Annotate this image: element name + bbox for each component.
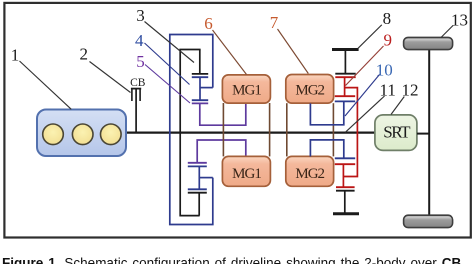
wheel bottom [404,215,453,227]
svg-text:Figure 1. Schematic configurat: Figure 1. Schematic configuration of dri… [2,256,461,264]
leader line 11 [345,96,384,132]
housing ground mount bottom [333,212,359,215]
svg-text:MG2: MG2 [295,82,324,98]
engine cylinder 3 [101,124,122,145]
gear mesh PG1 upper pair B [192,100,208,103]
wire: axle shaft [428,49,430,215]
leader line 4 [145,43,190,85]
leader line 1 [20,61,72,109]
gear mesh PG1 upper pair A [192,74,208,77]
svg-text:3: 3 [136,6,145,25]
clutch-brake CB (component 2) [131,89,141,132]
wire: sun shaft to MG1 lower, purple [197,140,246,163]
leader line 8 [358,25,382,49]
svg-text:SRT: SRT [383,123,411,142]
svg-text:MG2: MG2 [295,166,324,182]
motor MG2 upper half (component 7) [286,75,334,104]
motor MG1 lower half [222,156,270,186]
gear mesh PG1 lower pair B [188,189,207,192]
leader line 12 [391,97,404,115]
leader line 5 [145,65,190,104]
leader line 13 [441,26,453,38]
motor MG1 upper half (component 6) [222,75,270,103]
wire: MG2 rotor link lower, blue [310,140,343,158]
gear mesh PG2 lower pair B [336,187,355,191]
engine cylinder 2 [72,124,93,145]
svg-text:2: 2 [80,45,89,64]
svg-text:MG1: MG1 [232,166,261,182]
wire: MG1 stator housing links [223,103,269,156]
leader line 2 [90,62,131,93]
SRT gearbox (component 12) [375,115,417,150]
svg-text:5: 5 [136,52,145,71]
svg-text:4: 4 [135,31,144,50]
leader line 7 [278,29,309,74]
ring gear frame R1, blue outline (component 4) [170,35,213,225]
wire: stem to bottom mount [344,191,346,214]
wire: MG2 rotor link upper, blue (component 10) [310,101,343,124]
wire: sun shaft to MG1 upper, purple (component 5) [200,103,246,125]
leader line 3 [145,22,195,63]
gear mesh PG2 upper pair A [335,74,355,78]
gear mesh PG2 lower pair A [335,158,355,164]
carrier frame, black outline (component 3) [180,50,200,216]
leader line 10 [345,75,380,117]
svg-text:1: 1 [11,45,19,64]
leader line 6 [213,30,247,75]
wire: MG2 stator housing links [287,103,334,156]
svg-text:13: 13 [451,10,468,29]
svg-text:6: 6 [204,14,213,33]
wheel top (component 13) [404,37,453,49]
wire: SRT output link [417,133,429,135]
engine cylinder 1 [43,124,64,145]
svg-text:8: 8 [383,9,392,28]
wire: red carrier bracket (component 9) [343,77,357,187]
svg-text:9: 9 [384,31,393,50]
gear mesh PG2 upper pair B [335,96,355,101]
leader line 9 [346,46,384,86]
wire: main input shaft [125,132,376,134]
wire: stem from top mount [344,50,346,74]
engine block (component 1) [37,110,126,157]
housing ground mount top (component 8) [332,48,359,51]
gear mesh PG1 lower pair A [188,163,207,167]
svg-text:CB: CB [130,77,146,89]
svg-text:MG1: MG1 [232,82,261,98]
svg-text:11: 11 [380,81,396,100]
motor MG2 lower half [286,156,334,186]
